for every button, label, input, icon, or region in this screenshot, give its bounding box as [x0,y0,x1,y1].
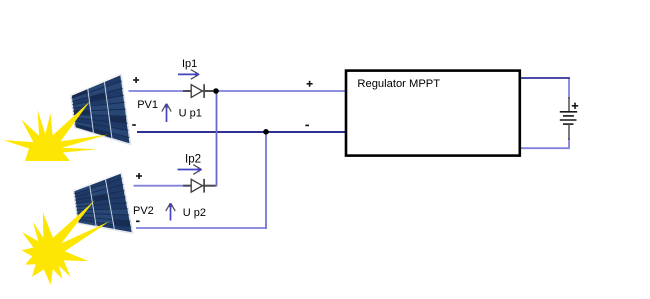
voltage arrow Up2 [166,203,175,221]
solar panel PV1 [71,74,131,145]
svg-text:Regulator MPPT: Regulator MPPT [357,78,440,90]
svg-text:U p1: U p1 [179,108,202,120]
svg-text:PV1: PV1 [137,99,158,111]
wire box to battery plus vertical drop [568,77,570,99]
wire PV2 plus to vertical [134,185,218,187]
wire battery minus to box [521,138,569,148]
wire PV1 plus to box (node P) [129,90,346,92]
voltage arrow Up1 [162,103,171,122]
svg-text:Ip1: Ip1 [182,58,197,70]
label plus at box input [307,81,313,87]
sun burst 2 [21,200,110,285]
wire box to battery plus horizontal (navy) [521,77,570,79]
svg-text:U p2: U p2 [183,207,206,219]
wire vertical PV2 minus up to node N [265,132,267,229]
wire PV2 minus horizontal [136,227,267,229]
diode D1 [183,84,213,98]
svg-text:Ip2: Ip2 [185,153,201,166]
label plus PV1 [133,77,139,83]
current arrow Ip1 [178,70,200,80]
label minus PV1 [132,124,136,126]
solar panel PV2 [74,173,133,234]
junction node N [263,129,269,135]
regulator box U1 [346,71,520,156]
wire vertical from node P down to diode D2 output [216,91,218,186]
diode D2 [183,179,216,193]
label plus PV2 [136,173,142,179]
current arrow Ip2 [178,165,203,175]
label minus PV2 [136,220,140,222]
battery plus label [572,103,578,109]
label minus at box input [305,124,309,126]
junction node P [213,88,219,94]
wire PV1 minus to box (node N) [137,131,345,133]
battery B1 [560,97,578,140]
svg-text:PV2: PV2 [133,205,154,217]
sun burst 1 [3,101,108,161]
